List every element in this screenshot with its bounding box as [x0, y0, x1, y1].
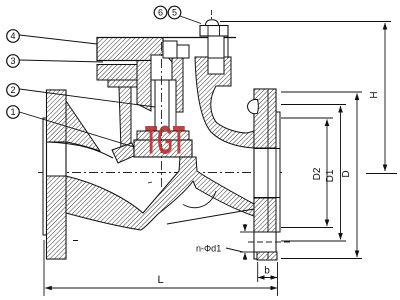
stem	[155, 80, 169, 131]
guide right hatch	[172, 56, 183, 112]
callout 4	[7, 30, 20, 43]
n-Phi-d1 leader	[226, 248, 243, 252]
stem boss	[151, 55, 172, 80]
dim D line	[356, 94, 358, 258]
svg-text:L: L	[157, 274, 163, 286]
bolt hex facets	[207, 26, 209, 37]
guide right white strip line	[175, 112, 177, 126]
bracket lines	[227, 36, 229, 58]
right flange hatch mid	[254, 198, 276, 232]
svg-text:D: D	[341, 170, 352, 177]
dim D1 line	[340, 106, 342, 240]
dim L extension left	[43, 240, 45, 296]
left flange raised face	[43, 118, 47, 235]
bonnet plate	[97, 38, 163, 61]
dim D1 extension bottom	[281, 240, 346, 242]
dim D2 extension top	[281, 117, 333, 119]
guide column left	[137, 61, 151, 112]
callout 5	[168, 6, 181, 19]
svg-text:n-Φd1: n-Φd1	[196, 244, 221, 254]
right flange hatch top	[254, 89, 276, 148]
neck wall left	[119, 87, 131, 150]
left flange hatch top	[47, 90, 67, 142]
dim D1 extension top	[281, 104, 346, 106]
right flange plate	[254, 89, 276, 259]
valve disc	[134, 140, 192, 157]
centerline right segment under H	[366, 173, 397, 175]
bore top line	[47, 142, 113, 158]
svg-text:5: 5	[172, 8, 177, 18]
svg-text:6: 6	[158, 8, 163, 18]
tick mark left hub	[73, 240, 78, 242]
left flange plate	[47, 90, 67, 259]
valve disc top strip	[137, 131, 189, 140]
dim H line	[384, 23, 386, 171]
dim L extension right	[277, 262, 279, 296]
svg-text:1: 1	[10, 107, 15, 117]
weld arc	[183, 191, 216, 208]
right flange raised face	[276, 112, 280, 232]
dim L line	[45, 287, 276, 289]
svg-text:TGT: TGT	[145, 117, 185, 163]
callout 3	[7, 55, 20, 68]
leader 5	[180, 16, 201, 24]
tick mark mid body	[148, 182, 152, 183]
horizontal centerline	[38, 172, 282, 174]
leader 3	[20, 60, 104, 62]
callout 2	[7, 84, 20, 97]
bolt hole centerline	[248, 241, 290, 243]
svg-text:4: 4	[10, 31, 15, 41]
seat lip left	[112, 143, 136, 163]
outlet J-band with neck collar	[195, 57, 254, 148]
dim b extension left	[257, 262, 259, 282]
svg-text:2: 2	[10, 85, 15, 95]
bonnet top line to bolt	[163, 37, 236, 39]
hole ext top	[240, 231, 254, 233]
svg-text:H: H	[369, 91, 380, 98]
raised face front through bore	[279, 149, 281, 198]
right bore gap	[255, 149, 279, 198]
dim D extension top	[281, 91, 362, 93]
bolt centerline tick	[211, 10, 213, 19]
bolt dome	[206, 20, 219, 26]
dim D2 line	[326, 120, 328, 227]
left flange hatch lower	[47, 176, 67, 259]
lower body S-band	[66, 157, 254, 230]
bonnet flange lower step	[108, 80, 139, 87]
right flange face line through bore	[275, 149, 277, 198]
callout 1	[7, 106, 20, 119]
hole ext bottom	[240, 251, 254, 253]
dim b line	[258, 277, 277, 279]
right flange hatch bottom ring	[257, 252, 277, 260]
leader 2	[20, 89, 156, 107]
left hub upper wedge	[66, 101, 100, 151]
cover step blocks	[163, 41, 177, 58]
bolt shank	[208, 36, 224, 74]
body outer bottom line	[167, 209, 254, 224]
bolt washer	[200, 26, 228, 37]
right flange bolt hole	[254, 232, 276, 252]
svg-text:b: b	[264, 266, 270, 277]
dim D2 extension bottom	[281, 227, 333, 229]
svg-text:3: 3	[10, 56, 15, 66]
outlet curl notch	[248, 100, 259, 114]
right flange inner line	[267, 90, 269, 232]
leader 4	[20, 35, 98, 44]
bonnet flange	[97, 65, 139, 81]
hole dim arrows	[244, 224, 246, 231]
leader 1	[20, 112, 135, 147]
vertical centerline	[161, 42, 163, 188]
dim D extension bottom	[281, 258, 362, 260]
dim H extension top	[220, 21, 391, 23]
svg-text:D2: D2	[312, 167, 323, 180]
callout 6	[154, 6, 167, 19]
